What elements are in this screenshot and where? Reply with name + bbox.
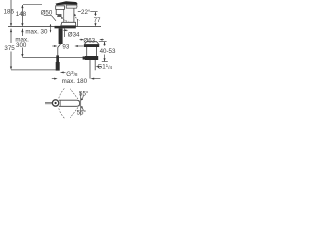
- hose nut lower: [56, 62, 60, 71]
- svg-text:G11/4: G11/4: [97, 63, 112, 71]
- svg-text:max. 180: max. 180: [62, 78, 88, 85]
- svg-text:55°: 55°: [79, 90, 89, 97]
- locknut left ear: [83, 56, 85, 59]
- svg-text:186: 186: [4, 9, 15, 16]
- extension line hose end level (375): [11, 69, 56, 71]
- arrow down 375 at hose line: [10, 67, 12, 70]
- dashed swing arc right of body: [75, 14, 80, 20]
- leader arrow O34 to shank: [66, 29, 68, 31]
- drain flange dome: [84, 42, 98, 45]
- drain locknut dark band: [85, 56, 98, 60]
- dashed phantom arm up 55deg: [70, 89, 80, 102]
- rod housing capsule: [59, 100, 80, 106]
- deck line: [8, 26, 101, 28]
- pop-up rod assembly: [45, 88, 83, 118]
- extension line basin rim: [99, 41, 107, 43]
- svg-text:22°: 22°: [81, 9, 91, 16]
- dimension 93: [52, 45, 84, 47]
- ball joint outer ring: [52, 100, 58, 106]
- arrow up 148: [21, 5, 23, 8]
- dimension line max300 below deck: [21, 29, 23, 55]
- faucet body fill: [64, 10, 73, 22]
- shank dark bar: [59, 28, 63, 44]
- extension line from lever top for 148: [23, 4, 42, 6]
- svg-text:40-53: 40-53: [100, 48, 116, 55]
- pull rod: [45, 102, 52, 104]
- dashed swing arc of rod tip upper: [59, 88, 65, 98]
- dashed swing arc left of body: [62, 17, 69, 21]
- extension line adjust bottom: [102, 61, 108, 63]
- dimension O63 arrows: [80, 39, 104, 41]
- leader 22deg: [78, 11, 81, 13]
- dim line 77: [94, 12, 96, 24]
- vertical reference line at pivot: [80, 92, 82, 116]
- dimension 77: [90, 12, 97, 27]
- arc arrow lower: [82, 107, 84, 111]
- svg-text:55°: 55°: [77, 110, 87, 117]
- dimension 40-53: [99, 42, 108, 62]
- arrow up 375 below deck: [10, 29, 12, 32]
- dashed swing arc of rod tip lower: [59, 108, 65, 118]
- deck thickness double arrow max30: [50, 24, 52, 32]
- tailpiece walls: [90, 60, 95, 79]
- svg-text:Ø34: Ø34: [68, 32, 80, 39]
- ball joint inner: [55, 102, 57, 104]
- shank right wall: [63, 28, 65, 37]
- svg-text:93: 93: [62, 44, 69, 51]
- svg-text:77: 77: [94, 17, 101, 24]
- faucet: [44, 1, 81, 31]
- svg-text:G3/8: G3/8: [66, 70, 78, 78]
- faucet lever blade (dark): [56, 1, 78, 5]
- dimension line 186 (vertical, above deck): [10, 0, 12, 24]
- faucet spout upper box: [56, 6, 65, 10]
- capsule inner tick: [59, 100, 61, 106]
- faucet body column: [64, 8, 74, 22]
- faucet base flange: [61, 22, 76, 26]
- extension line waste level (max300): [22, 56, 84, 58]
- dimension line 148 (vertical, above deck): [21, 5, 23, 24]
- svg-text:375: 375: [4, 45, 15, 52]
- svg-text:300: 300: [16, 42, 27, 49]
- extension line spout outlet level: [90, 11, 97, 13]
- waste drain assembly: [83, 42, 100, 79]
- faucet base dark band on deck: [55, 26, 76, 29]
- arrow down 148 at deck: [21, 23, 23, 26]
- faucet cartridge collar: [66, 5, 77, 8]
- svg-text:Ø50: Ø50: [41, 9, 53, 16]
- dimension max180: [52, 78, 101, 80]
- svg-text:max. 30: max. 30: [25, 29, 48, 36]
- faucet shank and supply hose below deck: [56, 28, 65, 70]
- svg-text:148: 148: [16, 11, 27, 18]
- hose nut (dark): [56, 55, 59, 62]
- drain body: [87, 47, 97, 56]
- arrow up max300 below deck: [21, 29, 23, 32]
- arrowhead arc right: [74, 14, 76, 16]
- arrow down max300 at waste line: [21, 54, 23, 57]
- handle-forward position line: [76, 20, 78, 27]
- aerator outlet dark tick: [58, 15, 61, 16]
- svg-text:Ø63: Ø63: [83, 38, 95, 45]
- faucet spout nose / aerator: [56, 9, 61, 16]
- drain flange dark band: [84, 45, 99, 47]
- leader G 3/8: [60, 72, 66, 74]
- label O50 underline and leader: [44, 16, 56, 21]
- dimension line 375 below deck: [10, 29, 12, 67]
- arc arrow upper: [82, 95, 84, 99]
- dashed phantom arm down 55deg: [70, 105, 80, 118]
- leader G 1 1/4: [96, 66, 102, 68]
- arrowhead arc left: [61, 17, 63, 19]
- arrow down 186 at deck: [10, 23, 12, 26]
- text labels: [4, 9, 116, 117]
- hose thin line: [58, 44, 61, 56]
